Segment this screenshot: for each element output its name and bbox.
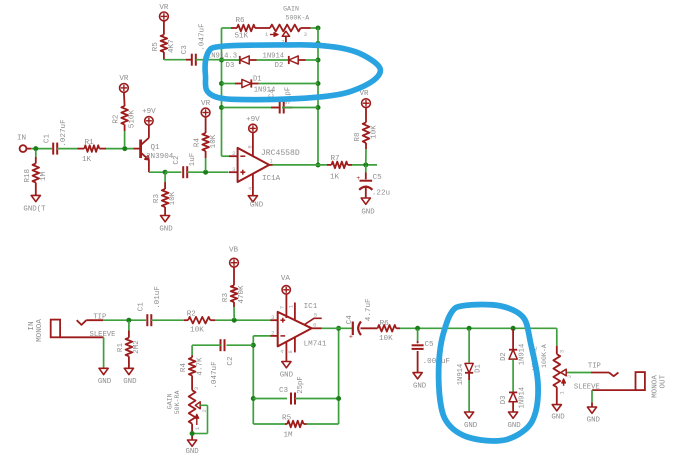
junction [163, 170, 168, 175]
capacitor C4 [268, 87, 292, 114]
svg-text:51K: 51K [234, 32, 248, 40]
svg-text:100K-A: 100K-A [541, 344, 548, 368]
jack IN MONOA [28, 313, 116, 341]
svg-text:GND: GND [98, 378, 112, 386]
svg-text:OUT: OUT [660, 374, 668, 388]
wire [567, 372, 591, 374]
svg-text:SLEEVE: SLEEVE [574, 383, 600, 391]
svg-text:5: 5 [314, 311, 317, 318]
svg-text:4.7uF: 4.7uF [365, 298, 373, 321]
wire [103, 319, 146, 321]
svg-text:1uF: 1uF [189, 152, 197, 166]
svg-text:3: 3 [304, 31, 307, 38]
power VR [119, 75, 129, 92]
svg-text:3: 3 [271, 314, 274, 321]
ground [551, 405, 565, 422]
wire [361, 327, 378, 329]
power VR [359, 90, 370, 108]
junction [203, 170, 208, 175]
capacitor C2 [221, 339, 235, 365]
wire [253, 336, 270, 424]
potentiometer GAIN 500K-A [261, 6, 311, 46]
svg-text:.047uF: .047uF [198, 23, 206, 51]
svg-text:VB: VB [229, 246, 239, 254]
junction [316, 81, 321, 86]
svg-text:4K7: 4K7 [168, 39, 176, 53]
svg-text:GND: GND [250, 201, 264, 209]
capacitor C2 [173, 152, 197, 178]
svg-text:470K: 470K [238, 285, 246, 304]
op-amp IC1A [229, 133, 300, 196]
svg-text:R4: R4 [180, 363, 188, 373]
svg-text:4: 4 [279, 349, 286, 353]
svg-text:D2: D2 [275, 62, 284, 70]
svg-text:R6: R6 [380, 320, 390, 328]
svg-text:1N914: 1N914 [263, 52, 285, 60]
svg-text:+: + [356, 175, 360, 182]
svg-text:C3: C3 [181, 45, 189, 55]
resistor R1 [117, 321, 141, 368]
wire [134, 148, 140, 150]
resistor R5 [152, 21, 176, 60]
svg-text:GND: GND [123, 378, 137, 386]
junction [316, 41, 321, 46]
svg-text:C4: C4 [268, 89, 276, 98]
wire [253, 398, 287, 400]
ground [413, 373, 427, 391]
diode D1 [242, 76, 275, 95]
wire [151, 319, 184, 321]
junction [122, 146, 127, 151]
wire [106, 148, 134, 150]
wire [251, 83, 318, 85]
junction [336, 326, 341, 331]
svg-text:3: 3 [232, 166, 235, 173]
svg-text:TIP: TIP [588, 363, 601, 371]
svg-text:GND: GND [413, 383, 427, 391]
svg-text:3: 3 [558, 350, 565, 353]
wire [222, 107, 279, 109]
junction [126, 318, 131, 323]
wire [165, 171, 181, 173]
svg-text:IC1A: IC1A [262, 175, 281, 183]
junction [219, 58, 224, 63]
wire [196, 59, 222, 61]
svg-text:GND: GND [159, 226, 173, 234]
svg-text:R3: R3 [222, 293, 230, 303]
svg-text:2: 2 [566, 375, 573, 378]
junction [219, 105, 224, 110]
highlight loop bottom [439, 305, 538, 441]
svg-text:GND: GND [361, 208, 375, 216]
resistor R2 [112, 92, 136, 147]
wire [253, 423, 285, 425]
svg-text:GND: GND [185, 448, 199, 456]
capacitor C5 [356, 165, 390, 198]
svg-text:1M: 1M [283, 432, 293, 440]
ground [507, 412, 521, 430]
jack MONOA OUT [574, 363, 668, 398]
svg-text:500K-A: 500K-A [286, 14, 310, 21]
capacitor C4 [346, 298, 373, 342]
svg-text:1: 1 [265, 31, 269, 38]
svg-text:GND: GND [507, 422, 521, 430]
svg-text:R7: R7 [330, 155, 339, 163]
junction [511, 326, 516, 331]
wire [468, 329, 470, 363]
svg-text:JRC4558D: JRC4558D [261, 149, 300, 158]
svg-text:510K: 510K [129, 110, 137, 129]
svg-text:VR: VR [119, 75, 129, 83]
wire [215, 319, 271, 321]
svg-text:+9V: +9V [246, 116, 260, 124]
svg-text:VR: VR [201, 100, 211, 108]
ground [587, 407, 601, 425]
svg-text:10K: 10K [169, 191, 177, 205]
svg-text:50K-RA: 50K-RA [174, 390, 181, 414]
wire [468, 373, 470, 412]
svg-text:VA: VA [281, 275, 291, 283]
wire [307, 328, 339, 424]
wire [227, 344, 254, 346]
resistor R6 [222, 17, 262, 41]
svg-text:3: 3 [193, 387, 200, 390]
junction [316, 26, 321, 31]
svg-text:1: 1 [194, 426, 201, 430]
potentiometer GAIN 50K-RA [167, 387, 208, 440]
wire [295, 398, 339, 400]
junction [251, 343, 256, 348]
power VR [159, 4, 169, 21]
svg-text:.22u: .22u [372, 190, 390, 198]
svg-text:2: 2 [271, 330, 274, 337]
svg-text:4.7K: 4.7K [197, 357, 205, 376]
resistor R3 [222, 267, 246, 319]
svg-text:LM741: LM741 [304, 340, 327, 348]
resistor R1 [78, 139, 107, 164]
wire [311, 27, 319, 29]
wire [512, 402, 514, 412]
ground [248, 196, 263, 210]
svg-text:10K: 10K [379, 335, 393, 343]
svg-text:1M: 1M [40, 172, 48, 182]
wire [103, 337, 105, 368]
capacitor C1 [44, 119, 69, 155]
svg-text:MONOA: MONOA [36, 319, 44, 342]
wire [149, 160, 165, 172]
ground [98, 368, 112, 386]
svg-text:2M2: 2M2 [133, 340, 141, 354]
svg-text:GND: GND [587, 417, 601, 425]
power +9V [246, 116, 260, 132]
svg-text:C5: C5 [424, 341, 434, 349]
svg-text:1: 1 [559, 390, 566, 394]
svg-text:R2: R2 [187, 310, 197, 318]
svg-text:6: 6 [313, 322, 316, 329]
svg-text:8: 8 [247, 145, 254, 148]
svg-text:2: 2 [201, 409, 208, 412]
svg-text:1: 1 [288, 304, 295, 308]
capacitor C3 [279, 376, 305, 404]
junction [232, 318, 237, 323]
svg-text:2N3904: 2N3904 [146, 153, 174, 161]
svg-text:1K: 1K [330, 174, 340, 182]
svg-text:GND: GND [280, 371, 294, 379]
wire [222, 59, 240, 61]
ground [123, 368, 137, 386]
ground [361, 198, 375, 216]
svg-text:C5: C5 [373, 174, 383, 182]
svg-text:8: 8 [287, 350, 294, 353]
svg-text:GND: GND [464, 422, 478, 430]
svg-text:Q1: Q1 [151, 144, 161, 152]
power VR [201, 100, 211, 117]
wire [286, 42, 318, 44]
svg-text:1N914: 1N914 [457, 364, 465, 386]
junction [219, 81, 224, 86]
junction [190, 431, 195, 436]
resistor R18 [24, 150, 48, 195]
svg-text:.01uF: .01uF [154, 286, 162, 309]
wire [222, 83, 242, 85]
wire [352, 164, 377, 166]
wire [273, 164, 328, 166]
resistor R3 [153, 173, 177, 216]
svg-text:C2: C2 [227, 356, 235, 366]
svg-text:10K: 10K [190, 326, 204, 334]
power +9V [142, 108, 156, 138]
svg-text:25pF: 25pF [297, 376, 305, 393]
transistor Q1 [141, 138, 174, 161]
junction [33, 146, 38, 151]
svg-text:.047uF: .047uF [211, 361, 219, 389]
svg-text:1N914: 1N914 [518, 387, 526, 409]
power VA [281, 275, 291, 294]
svg-text:D3: D3 [500, 396, 508, 405]
wire [317, 28, 319, 165]
svg-text:VR: VR [159, 4, 169, 12]
wire [164, 59, 192, 61]
ground [464, 412, 478, 430]
svg-text:10K: 10K [370, 125, 378, 139]
svg-text:R4: R4 [194, 138, 202, 148]
junction [363, 162, 368, 167]
power VB [229, 246, 239, 267]
connector IN [17, 135, 26, 153]
junction [336, 396, 341, 401]
svg-text:1: 1 [269, 158, 273, 165]
svg-text:GND(T: GND(T [23, 206, 46, 214]
junction [415, 326, 420, 331]
diode D3 [207, 53, 249, 70]
svg-text:GND: GND [551, 413, 565, 421]
wire [282, 107, 318, 109]
wire [322, 327, 352, 329]
svg-text:MONOA: MONOA [651, 375, 659, 398]
diode D1 [457, 363, 483, 385]
svg-text:GAIN: GAIN [167, 393, 174, 409]
svg-text:R1: R1 [84, 139, 94, 147]
svg-text:1N914: 1N914 [518, 344, 526, 366]
svg-text:C1: C1 [44, 134, 52, 144]
diode D3 [500, 387, 527, 409]
wire [298, 59, 318, 61]
capacitor C1 [137, 286, 162, 327]
svg-text:IN: IN [17, 135, 26, 143]
wire [222, 28, 230, 156]
wire [192, 345, 221, 355]
svg-text:R5: R5 [152, 42, 160, 52]
highlight loop top [205, 45, 380, 100]
wire [187, 171, 229, 173]
resistor R4 [180, 355, 219, 390]
svg-text:GAIN: GAIN [283, 6, 299, 13]
svg-text:D2: D2 [500, 352, 508, 361]
junction [467, 326, 472, 331]
svg-text:R5: R5 [282, 415, 292, 423]
svg-text:C3: C3 [279, 387, 289, 395]
wire [512, 329, 514, 350]
junction [316, 58, 321, 63]
ground [159, 216, 173, 234]
resistor R6 [378, 320, 400, 343]
potentiometer VOLUME 100K-A [532, 344, 573, 404]
wire [512, 360, 514, 393]
svg-text:VR: VR [359, 90, 369, 98]
resistor R5 [282, 415, 306, 440]
resistor R8 [354, 108, 379, 164]
svg-text:IC1: IC1 [304, 303, 318, 311]
ground [185, 440, 199, 456]
diode D2 [263, 52, 299, 70]
capacitor C3 [181, 23, 206, 66]
svg-text:C2: C2 [173, 155, 181, 165]
wire [57, 148, 78, 150]
svg-text:1N914.3: 1N914.3 [207, 53, 237, 61]
wire [26, 148, 52, 150]
svg-text:10K: 10K [210, 134, 218, 148]
svg-text:D1: D1 [475, 364, 483, 373]
svg-text:R6: R6 [235, 17, 245, 25]
svg-text:C4: C4 [346, 315, 354, 325]
wire [400, 327, 557, 329]
svg-text:+: + [349, 334, 353, 342]
junction [316, 105, 321, 110]
svg-text:R8: R8 [354, 132, 362, 142]
svg-text:2: 2 [232, 150, 235, 157]
svg-text:7: 7 [279, 306, 286, 309]
svg-text:D1: D1 [253, 76, 262, 84]
svg-text:1K: 1K [82, 156, 92, 164]
resistor R4 [194, 117, 218, 171]
svg-text:D3: D3 [226, 62, 235, 70]
svg-text:IN: IN [28, 321, 36, 330]
wire [556, 328, 558, 345]
svg-text:R18: R18 [24, 169, 32, 183]
diode D2 [500, 344, 527, 366]
svg-text:+9V: +9V [142, 108, 156, 116]
svg-text:.027uF: .027uF [60, 119, 68, 147]
svg-text:C1: C1 [137, 302, 145, 312]
resistor R7 [327, 155, 352, 181]
wire [591, 390, 593, 407]
resistor R2 [184, 310, 215, 334]
svg-text:SLEEVE: SLEEVE [90, 331, 116, 339]
junction [251, 396, 256, 401]
svg-text:R1: R1 [117, 343, 125, 353]
svg-text:R3: R3 [153, 194, 161, 204]
junction [316, 163, 321, 168]
wire [249, 59, 289, 61]
ground [23, 195, 46, 213]
capacitor C5 [412, 329, 451, 373]
op-amp IC1 [271, 294, 327, 362]
svg-text:R2: R2 [112, 114, 120, 124]
ground [280, 362, 294, 380]
